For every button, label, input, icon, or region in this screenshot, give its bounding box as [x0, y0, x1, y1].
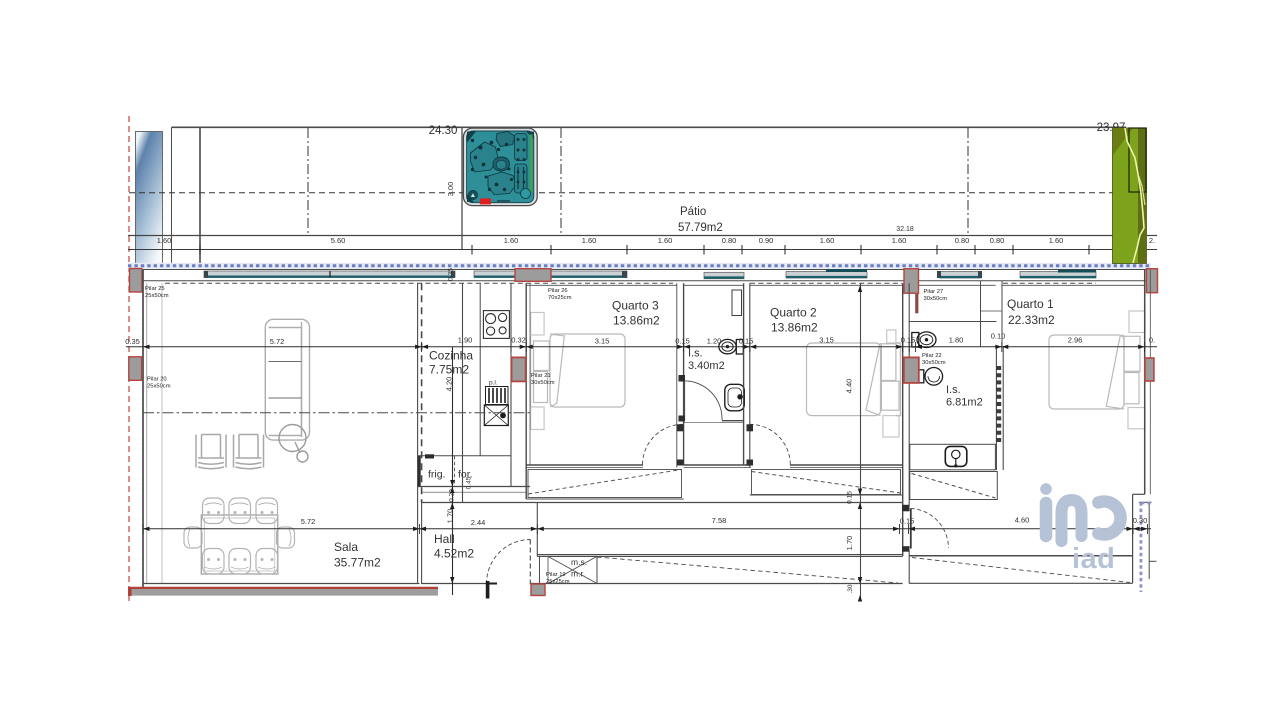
pillar P22 — [904, 357, 919, 383]
patio grid line at kitchen axis — [461, 127, 463, 249]
svg-text:57.79m2: 57.79m2 — [678, 222, 723, 234]
svg-text:30x50cm: 30x50cm — [922, 360, 946, 366]
svg-text:0.80: 0.80 — [955, 236, 970, 245]
right section bottom wardrobe diagonal — [912, 558, 1130, 583]
window glazing segments — [204, 269, 1096, 279]
door threshold marks right corridor — [902, 505, 910, 512]
dim ticks main — [422, 342, 1145, 352]
pillar P25 top-left — [130, 269, 143, 293]
svg-text:3.00: 3.00 — [446, 182, 455, 197]
pillar right-mid — [1145, 358, 1154, 381]
svg-text:Pilar 26: Pilar 26 — [548, 288, 568, 294]
svg-text:m.r.: m.r. — [571, 569, 585, 579]
is1 door leaf — [683, 381, 685, 421]
svg-text:p.l.: p.l. — [489, 380, 498, 387]
sala south wall band — [128, 589, 438, 596]
washbasin is1 — [725, 384, 745, 411]
armchair 2 — [234, 435, 264, 469]
rotated dim labels — [445, 268, 855, 594]
faint floor line sala — [161, 283, 163, 583]
patio dash-dot axis 2 — [560, 128, 562, 235]
quarto3 / is1 wall — [676, 283, 678, 467]
dining chairs top row — [203, 498, 278, 524]
svg-text:Pilar 25: Pilar 25 — [145, 286, 165, 292]
blue gradient pool strip — [136, 132, 163, 264]
svg-text:0.35: 0.35 — [448, 268, 455, 281]
corridor top line — [422, 502, 903, 504]
svg-text:0.: 0. — [1149, 336, 1155, 345]
shower screen hatched — [996, 366, 1001, 444]
svg-text:Quarto 3: Quarto 3 — [612, 299, 659, 313]
quarto2 door arc — [750, 424, 790, 464]
svg-text:0.15: 0.15 — [901, 336, 916, 345]
toilet is1 — [719, 339, 744, 354]
quarto2 right wall — [902, 283, 904, 556]
svg-text:I.s.: I.s. — [946, 384, 961, 396]
svg-text:0.30: 0.30 — [1133, 516, 1148, 525]
svg-text:Cozinha: Cozinha — [429, 349, 473, 363]
dash-dot sala axis — [143, 412, 530, 414]
red dashed property line left — [128, 116, 130, 601]
svg-text:1.70: 1.70 — [446, 509, 455, 524]
patio dimension ticks — [200, 245, 1089, 255]
kitchen bottom wall — [418, 486, 530, 488]
svg-text:0.45: 0.45 — [466, 476, 473, 489]
TOP WALL BAND — [130, 269, 1158, 294]
svg-text:Sala: Sala — [334, 540, 358, 554]
svg-text:2.44: 2.44 — [471, 518, 486, 527]
patio dash-dot axis 1 — [307, 128, 309, 235]
is2 closet — [910, 472, 998, 500]
pillar top-right corner — [1147, 269, 1158, 293]
green garden strip — [1113, 128, 1147, 264]
dining chairs bottom row — [203, 549, 278, 575]
kitchen sink — [484, 405, 508, 426]
svg-text:Pilar 20: Pilar 20 — [147, 377, 167, 383]
svg-text:0.90: 0.90 — [759, 236, 774, 245]
svg-text:Quarto 2: Quarto 2 — [770, 306, 817, 320]
dim labels corridor row — [301, 516, 1148, 528]
svg-text:0.35: 0.35 — [125, 337, 140, 346]
hallway wardrobe — [597, 557, 898, 583]
vertical dim line kitchen-hall — [452, 347, 454, 595]
LOGO iad watermark — [1040, 483, 1120, 575]
svg-text:3.40m2: 3.40m2 — [688, 360, 725, 372]
pillar P27 top — [904, 269, 919, 294]
svg-text:5.72: 5.72 — [301, 517, 316, 526]
blue-violet dashed line bottom right — [1140, 502, 1143, 592]
bed quarto2 — [807, 330, 901, 437]
hall door leaf — [529, 540, 531, 585]
ms-mr closet — [540, 556, 598, 583]
right section bottom wall — [909, 582, 1132, 584]
svg-text:1.60: 1.60 — [157, 236, 172, 245]
vertical dim line mid grid ticks — [858, 286, 862, 602]
svg-text:13.86m2: 13.86m2 — [613, 314, 660, 328]
svg-text:3.15: 3.15 — [595, 337, 610, 346]
quarto bottom walls — [526, 464, 643, 466]
svg-text:2.96: 2.96 — [1068, 336, 1083, 345]
svg-text:35.77m2: 35.77m2 — [334, 556, 381, 570]
left outer wall — [142, 270, 144, 596]
svg-text:25x25cm: 25x25cm — [546, 579, 570, 585]
right section mid line — [909, 555, 1132, 557]
dim arrows main — [143, 345, 1145, 349]
svg-text:Pilar 19: Pilar 19 — [546, 572, 566, 578]
svg-text:1.60: 1.60 — [892, 236, 907, 245]
armchair 1 — [196, 435, 226, 469]
is2 door leaf — [910, 508, 912, 548]
pillar P19 — [531, 584, 545, 596]
svg-text:22.33m2: 22.33m2 — [1008, 313, 1055, 327]
svg-text:1.60: 1.60 — [820, 236, 835, 245]
window sala — [204, 271, 455, 278]
dining table — [201, 515, 277, 574]
svg-text:frig.: frig. — [428, 469, 446, 481]
patio left grid line B — [199, 127, 201, 263]
window quarto2 — [786, 269, 867, 278]
svg-text:0.15: 0.15 — [847, 491, 854, 504]
window cozinha — [474, 271, 516, 278]
dish rack — [486, 387, 509, 405]
svg-text:4.20: 4.20 — [445, 377, 454, 392]
is1 cabinet — [732, 290, 742, 316]
is2 / quarto1 wall — [995, 347, 997, 470]
window is1 — [704, 272, 744, 279]
stove — [483, 311, 509, 339]
patio dimension labels — [157, 226, 1155, 245]
window is2 — [937, 271, 982, 278]
svg-text:0.80: 0.80 — [990, 236, 1005, 245]
svg-text:2.: 2. — [1149, 236, 1155, 245]
svg-text:1.90: 1.90 — [458, 336, 473, 345]
svg-text:30x50cm: 30x50cm — [924, 296, 948, 302]
corridor dim line y529 — [143, 528, 1151, 530]
bed quarto3 — [531, 313, 626, 430]
kitchen axis line — [462, 283, 464, 502]
patio dashed mid line — [129, 192, 1113, 194]
svg-text:I.s.: I.s. — [688, 348, 703, 360]
window quarto1 — [1020, 270, 1096, 279]
svg-text:0.15: 0.15 — [900, 517, 915, 526]
FURNITURE — [184, 290, 1145, 574]
sala-hall wall — [417, 283, 419, 584]
svg-text:1.60: 1.60 — [658, 236, 673, 245]
svg-text:Hall: Hall — [434, 532, 455, 546]
svg-text:5.60: 5.60 — [331, 236, 346, 245]
patio top boundary line — [172, 126, 1127, 128]
svg-text:0.10: 0.10 — [991, 332, 1006, 341]
patio dimension line — [128, 249, 1157, 251]
svg-text:0.15: 0.15 — [675, 337, 690, 346]
svg-text:Pilar 27: Pilar 27 — [924, 289, 944, 295]
pillar P26 top (70x25) — [515, 269, 551, 282]
svg-text:70x25cm: 70x25cm — [548, 295, 572, 301]
is1 right wall — [743, 283, 745, 465]
dining end chairs — [184, 527, 295, 548]
svg-text:0.32: 0.32 — [511, 336, 526, 345]
svg-text:1.80: 1.80 — [949, 336, 964, 345]
pillar P20 — [129, 357, 142, 381]
svg-text:7.75m2: 7.75m2 — [429, 363, 469, 377]
svg-text:1.20: 1.20 — [707, 337, 722, 346]
svg-text:iad: iad — [1072, 543, 1115, 575]
svg-text:0.15: 0.15 — [739, 337, 754, 346]
couch sala — [265, 319, 309, 483]
fridge-oven dashed divider — [454, 456, 456, 487]
svg-text:1.70: 1.70 — [845, 536, 854, 551]
hot tub — [463, 128, 537, 206]
bidet is2 — [917, 368, 942, 386]
is1 bottom wall — [722, 420, 744, 422]
top wall inner face line — [143, 280, 1150, 282]
svg-text:25x50cm: 25x50cm — [147, 384, 171, 390]
shower drain is2 — [945, 446, 967, 467]
hall right wall — [536, 503, 538, 557]
svg-text:24.30: 24.30 — [429, 125, 458, 137]
right outer wall — [1144, 270, 1146, 495]
svg-text:Pilar 22: Pilar 22 — [922, 353, 942, 359]
dim labels main row — [125, 332, 1155, 346]
fridge handle — [425, 454, 434, 458]
patio left grid line A — [171, 127, 173, 263]
quarto3 door arc — [643, 424, 684, 464]
room top face lines — [526, 284, 1144, 286]
svg-text:.30: .30 — [847, 584, 854, 593]
svg-text:1.60: 1.60 — [1049, 236, 1064, 245]
is2 counter — [910, 444, 996, 470]
svg-text:32.18: 32.18 — [896, 226, 914, 233]
side table and lamp — [279, 425, 308, 463]
DIMENSIONS — [126, 286, 1157, 602]
is2 door arc — [911, 508, 949, 548]
svg-text:Pátio: Pátio — [680, 206, 706, 218]
svg-text:13.86m2: 13.86m2 — [771, 321, 818, 335]
fridge back double line — [418, 456, 421, 487]
svg-text:4.52m2: 4.52m2 — [434, 547, 474, 561]
wardrobe quarto3 — [528, 470, 682, 498]
svg-text:Pilar 21: Pilar 21 — [531, 373, 551, 379]
window quarto3 — [551, 271, 627, 278]
corridor bottom wall — [537, 554, 902, 556]
patio lower boundary line — [128, 235, 1113, 237]
svg-text:3.15: 3.15 — [819, 336, 834, 345]
main dim line y347 — [126, 346, 1157, 348]
right wall jog — [1133, 493, 1145, 495]
PATIO SECTION — [128, 116, 1157, 601]
wardrobe quarto2 — [752, 470, 901, 495]
bed quarto1 — [1049, 311, 1145, 429]
svg-text:30x50cm: 30x50cm — [531, 380, 555, 386]
svg-text:Quarto 1: Quarto 1 — [1007, 297, 1054, 311]
blue dashed utility line across — [128, 263, 1151, 269]
svg-text:5.72: 5.72 — [270, 337, 285, 346]
svg-text:1.60: 1.60 — [504, 236, 519, 245]
svg-text:25x50cm: 25x50cm — [145, 293, 169, 299]
svg-text:0.20: 0.20 — [449, 489, 456, 502]
svg-text:1.60: 1.60 — [582, 236, 597, 245]
hall door arc — [486, 540, 530, 585]
kitchen counter bottom — [418, 455, 511, 457]
interior dashed face under windows — [165, 282, 1096, 284]
svg-text:4.40: 4.40 — [845, 379, 854, 394]
svg-text:4.60: 4.60 — [1015, 516, 1030, 525]
is2 closet column — [980, 281, 982, 347]
svg-text:0.80: 0.80 — [722, 236, 737, 245]
toilet is2 — [912, 332, 936, 348]
entrance door — [486, 581, 490, 599]
svg-text:6.81m2: 6.81m2 — [946, 397, 983, 409]
bottom interior line sala — [143, 583, 420, 585]
svg-text:m.s.: m.s. — [571, 557, 587, 567]
pillar P21 kitchen — [512, 357, 526, 381]
svg-text:7.58: 7.58 — [712, 516, 727, 525]
top wall outer face line — [143, 269, 1150, 271]
patio dash-dot axis 3 — [967, 128, 969, 235]
pilar labels — [145, 286, 947, 585]
kitchen right wall — [510, 283, 512, 486]
INTERIOR WALLS — [128, 270, 1157, 602]
is1 door arc — [684, 381, 722, 420]
structural grid line mid — [860, 283, 862, 601]
kitchen counter edge — [479, 283, 481, 455]
